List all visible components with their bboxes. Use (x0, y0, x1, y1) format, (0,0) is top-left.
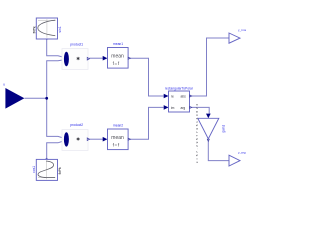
mean block mean2 (108, 123, 131, 149)
wire product1 to mean1 (89, 57, 103, 59)
wire rectangularToPolar abs to y_rms (191, 38, 229, 96)
svg-text:sin1: sin1 (58, 26, 62, 32)
svg-text:cos1: cos1 (32, 166, 36, 173)
multiproduct product1 (62, 42, 90, 69)
svg-text:mean1: mean1 (113, 42, 123, 46)
wire junction up to product1 u[2] (47, 60, 65, 99)
svg-text:u: u (3, 83, 5, 87)
output connector y_rms (229, 28, 247, 43)
gain block (rotated 270) (195, 104, 226, 163)
arrowhead into mean1 (103, 56, 108, 61)
svg-text:f=f*k: f=f*k (58, 167, 62, 174)
mean block mean1 (108, 42, 131, 68)
arrowhead into rectangularToPolar im (164, 105, 169, 110)
svg-text:f=f: f=f (113, 143, 120, 148)
svg-text:f=f: f=f (113, 61, 120, 66)
source block cos1 (32, 158, 62, 181)
block rectangularToPolar (165, 86, 194, 112)
wire cos1 to product2 u[2] (47, 141, 65, 160)
wire product2 to mean2 (89, 138, 103, 140)
wire gain to y_arg (208, 141, 229, 160)
arrowhead into mean2 (103, 137, 108, 142)
svg-text:rectangularToPolar: rectangularToPolar (165, 86, 194, 90)
svg-text:arg: arg (181, 106, 186, 110)
wire rectangularToPolar arg to gain (191, 107, 209, 113)
wire u input to junction (25, 97, 47, 99)
svg-text:mean: mean (111, 135, 124, 141)
source block sin1 (33, 18, 63, 40)
svg-text:product2: product2 (70, 123, 83, 127)
multiproduct product2 (62, 123, 90, 150)
svg-text:gain1: gain1 (222, 125, 226, 133)
svg-text:product1: product1 (70, 42, 83, 46)
wire junction down to product2 u[1] (47, 98, 65, 138)
input connector u (3, 83, 24, 109)
wire sin1 to product1 u[1] (47, 40, 65, 58)
svg-text:re: re (171, 95, 174, 99)
junction dot (45, 97, 48, 100)
svg-text:im: im (171, 106, 175, 110)
svg-text:mean2: mean2 (113, 123, 123, 127)
svg-text:y_rms: y_rms (238, 28, 247, 32)
wire mean1 to rectangularToPolar re (129, 58, 164, 96)
svg-text:abs: abs (181, 95, 187, 99)
output connector y_arg (229, 151, 246, 166)
wire mean2 to rectangularToPolar im (129, 107, 164, 139)
svg-text:y_arg: y_arg (238, 151, 246, 155)
arrowhead into rectangularToPolar re (164, 94, 169, 99)
svg-text:mean: mean (111, 54, 124, 60)
svg-text:f=f*k: f=f*k (33, 26, 37, 33)
